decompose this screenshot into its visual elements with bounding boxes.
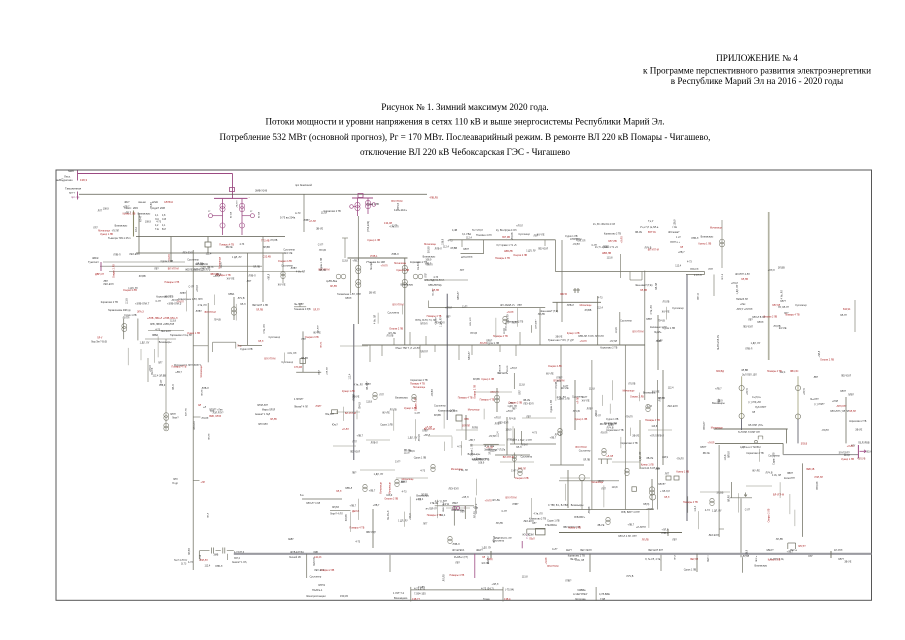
- bus 481: [559, 480, 619, 482]
- svg-text:4-73 87,6: 4-73 87,6: [234, 551, 245, 554]
- wire: [366, 439, 390, 441]
- svg-text:ВЗУ-УВ: ВЗУ-УВ: [186, 408, 188, 416]
- svg-text:Транс-кая 7 Об, (7 у)Р: Транс-кая 7 Об, (7 у)Р: [548, 339, 574, 342]
- svg-text:Сурок 4 ЛВ: Сурок 4 ЛВ: [240, 348, 253, 351]
- svg-text:112,4: 112,4: [152, 375, 158, 378]
- wire: [560, 477, 590, 479]
- svg-text:С-Л?: С-Л?: [552, 548, 558, 551]
- svg-text:3,1 УВА: 3,1 УВА: [462, 233, 471, 236]
- svg-text:108,9: 108,9: [674, 219, 677, 226]
- svg-text:Коркатово 2 ТВ: Коркатово 2 ТВ: [606, 429, 624, 432]
- svg-text:112,4: 112,4: [694, 505, 697, 511]
- svg-text:С-Л?: С-Л?: [582, 396, 588, 399]
- svg-text:Потоки мощности и уровни напря: Потоки мощности и уровни напряжения в се…: [265, 117, 664, 127]
- svg-text:С-Л?: С-Л?: [563, 385, 569, 388]
- svg-text:ЛЛ,ЛЛ: ЛЛ,ЛЛ: [729, 495, 731, 502]
- svg-text:Вохемцево: Вохемцево: [394, 596, 408, 600]
- svg-text:С32,4В: С32,4В: [263, 256, 272, 259]
- svg-text:ЗВ4,3С: ЗВ4,3С: [790, 370, 799, 373]
- svg-text:113,8: 113,8: [519, 383, 525, 386]
- wire vert 283: [282, 253, 284, 283]
- svg-text:4-73: 4-73: [239, 243, 244, 246]
- wire bus2 Тарханово: [145, 338, 176, 340]
- svg-text:1 ДЛ, ЛУ: 1 ДЛ, ЛУ: [712, 510, 722, 513]
- svg-text:112,4: 112,4: [349, 373, 352, 379]
- svg-text:ЛЛУ,Л?: ЛЛУ,Л?: [798, 546, 806, 548]
- svg-text:ЛЛЛ,ЛЛ: ЛЛЛ,ЛЛ: [200, 560, 209, 562]
- svg-text:108,9: 108,9: [145, 220, 152, 223]
- wire vert 561: [560, 345, 562, 465]
- svg-text:ЛЛВ-Л: ЛЛВ-Л: [657, 434, 665, 437]
- svg-text:113,8: 113,8: [342, 259, 348, 262]
- wire vert 722: [721, 220, 723, 268]
- svg-text:ЛЛ-Л?: ЛЛ-Л?: [840, 314, 848, 317]
- svg-text:ЛВ?: ЛВ?: [455, 561, 460, 564]
- svg-text:ЛЕУ-т: ЛЕУ-т: [707, 555, 710, 562]
- transformer Заречная: [165, 339, 167, 430]
- svg-text:Озерки 2 ЛВ: Озерки 2 ЛВ: [389, 327, 403, 330]
- svg-text:-ЛУ,ЛЛ: -ЛУ,ЛЛ: [122, 316, 130, 319]
- svg-text:ЛЛ,ЛВ: ЛЛ,ЛВ: [773, 325, 780, 328]
- svg-text:ЛВ?: ЛВ?: [103, 280, 108, 283]
- svg-text:ЗВУ-ЛД?: ЗВУ-ЛД?: [366, 531, 376, 534]
- svg-text:ЛЛЛ: ЛЛЛ: [173, 479, 178, 481]
- transformer: [710, 498, 714, 502]
- svg-text:ЛЛ,ЛВ: ЛЛ,ЛВ: [741, 278, 748, 281]
- svg-text:-ЛУ,ЛЛ: -ЛУ,ЛЛ: [676, 458, 684, 461]
- svg-text:АВВ,ЛВ: АВВ,ЛВ: [504, 250, 513, 253]
- svg-text:ЖУ-ЛЕ: ЖУ-ЛЕ: [382, 411, 390, 414]
- box Озерки: [332, 410, 338, 414]
- wire riser345 b: [409, 332, 411, 345]
- svg-text:844,94: 844,94: [843, 308, 851, 311]
- svg-text:ЛьУЛ-ЕУЛ-УЕ: ЛьУЛ-ЕУЛ-УЕ: [717, 334, 720, 350]
- box 536: [536, 528, 546, 535]
- svg-text:С-Л?: С-Л?: [462, 306, 468, 309]
- svg-text:( ( ) ЛЛЛ?: ( ( ) ЛЛЛ?: [814, 403, 825, 406]
- svg-text:Помары 4 ТВ: Помары 4 ТВ: [493, 335, 508, 338]
- svg-text:Косм-ЛЛ?: Косм-ЛЛ?: [784, 477, 795, 480]
- svg-text:+ЛВ,7: +ЛВ,7: [715, 387, 722, 390]
- svg-text:ЛЛ: ЛЛ: [752, 411, 756, 414]
- tap 480: [193, 480, 199, 482]
- svg-text:Сурок 1 ЛВ: Сурок 1 ЛВ: [547, 520, 560, 523]
- svg-text:Суслонгер: Суслонгер: [387, 312, 399, 315]
- svg-text:Визимьяры: Визимьяры: [452, 509, 465, 512]
- svg-text:Суслонгер: Суслонгер: [795, 304, 807, 307]
- svg-text:ЗМВ: ЗМВ: [214, 554, 219, 556]
- svg-text:+ЛЛЛ: +ЛЛЛ: [832, 400, 839, 403]
- wire vert 263: [262, 237, 264, 303]
- transformer: [503, 316, 507, 320]
- svg-text:+ЛЛ,Л: +ЛЛ,Л: [267, 273, 270, 280]
- bus Оршанка: [449, 239, 555, 241]
- svg-text:-ЛУ,ЛЛ: -ЛУ,ЛЛ: [431, 389, 434, 397]
- svg-text:ЛЛВ-Л: ЛЛВ-Л: [194, 269, 202, 272]
- svg-text:ЛЛВ-ЛЛ Л ЛЛ. ЛЛЛ ЛЛ: ЛЛВ-ЛЛ Л ЛЛ. ЛЛЛ ЛЛ: [578, 335, 604, 338]
- wire vert 373: [372, 509, 374, 548]
- svg-text:4 Ув, ЛЛ: 4 Ув, ЛЛ: [575, 559, 585, 562]
- svg-text:Визимьяры: Визимьяры: [468, 453, 481, 456]
- svg-text:ЖУ-УЕЗЛ-Уч: ЖУ-УЕЗЛ-Уч: [500, 304, 516, 307]
- bus 444: [510, 443, 556, 445]
- wire vert 592: [591, 360, 593, 510]
- svg-text:Кужер 1 ЛВ: Кужер 1 ЛВ: [342, 390, 355, 393]
- wire vert 645: [644, 271, 646, 400]
- svg-text:Зв-2(кй: Зв-2(кй: [370, 261, 373, 270]
- svg-text:ЗВ-УЕ: ЗВ-УЕ: [316, 228, 323, 231]
- wire: [451, 437, 453, 448]
- svg-text:С-Л?: С-Л?: [745, 508, 751, 511]
- svg-text:Уч,е Г,Л ,Е,ЛЛ-а: Уч,е Г,Л ,Е,ЛЛ-а: [640, 226, 659, 229]
- svg-text:Тькелра 709.1 25.1: Тькелра 709.1 25.1: [108, 236, 131, 240]
- svg-text:Сурок 1 ЛВ: Сурок 1 ЛВ: [414, 457, 427, 460]
- svg-text:Лид-Элт? В (В: Лид-Элт? В (В: [91, 341, 107, 344]
- svg-text:Л, Ге-УЛ, 4 Ув,: Л, Ге-УЛ, 4 Ув,: [645, 558, 661, 561]
- svg-text:ЧЭВВа: ЧЭВВа: [577, 588, 586, 592]
- svg-text:1 ДЛ, ЛУ: 1 ДЛ, ЛУ: [639, 451, 642, 461]
- wire Орш vert: [483, 240, 485, 254]
- svg-text:АТ-ВЛ: АТ-ВЛ: [258, 211, 261, 218]
- svg-text:113,8: 113,8: [125, 298, 128, 304]
- svg-text:ЛЛВ?: ЛЛВ?: [196, 310, 203, 313]
- svg-text:С-Л?: С-Л?: [395, 461, 401, 464]
- transformer: [602, 448, 606, 452]
- svg-text:ЛЕУ-ЕУЛ: ЛЕУ-ЕУЛ: [538, 247, 549, 250]
- svg-text:Мочалище: Мочалище: [623, 390, 636, 393]
- svg-text:ЛЛВ: ЛЛВ: [464, 418, 469, 421]
- svg-text:ЗЛУЗЛЛ?: ЗЛУЗЛЛ?: [536, 319, 538, 329]
- svg-text:ЗЛ,ВВ: ЗЛ,ВВ: [489, 447, 492, 454]
- svg-text:+ЛЛ,Л: +ЛЛ,Л: [494, 417, 501, 420]
- svg-text:Суслонгер: Суслонгер: [518, 233, 530, 236]
- svg-text:110+110+: 110+110+: [394, 208, 407, 212]
- bus 507 left: [330, 510, 351, 512]
- wire: [437, 500, 439, 518]
- tap 417: [193, 416, 200, 418]
- svg-text:+Л-ЛЛ: +Л-ЛЛ: [707, 441, 714, 444]
- svg-text:ЛУЧ,В: ЛУЧ,В: [397, 202, 400, 209]
- wire bus Тарханово: [148, 330, 184, 332]
- svg-text:113,8: 113,8: [615, 327, 618, 333]
- svg-text:ЖЕУ?: ЖЕУ?: [476, 549, 483, 552]
- svg-text:ВЛ-УГЛ-М: ВЛ-УГЛ-М: [264, 358, 275, 361]
- svg-text:Коркатово 2 ТВ: Коркатово 2 ТВ: [101, 301, 119, 304]
- svg-text:к Программе перспективного раз: к Программе перспективного развития элек…: [643, 66, 871, 76]
- svg-text:ЛЛВ?: ЛЛВ?: [365, 383, 372, 386]
- breaker box: [230, 188, 235, 192]
- svg-text:ПААТа-1: ПААТа-1: [312, 588, 323, 592]
- wire drop2: [138, 213, 140, 253]
- svg-text:Визимьяры: Визимьяры: [604, 422, 617, 425]
- svg-text:+ЛЛ,Л: +ЛЛ,Л: [818, 350, 821, 357]
- wire elbow 741: [730, 497, 752, 499]
- transformer: [646, 404, 650, 408]
- svg-text:Госамлена 1 ЛЛ, ЛЛЛ: Госамлена 1 ЛЛ, ЛЛЛ: [337, 293, 361, 296]
- svg-text:УОВ,1: УОВ,1: [370, 254, 378, 258]
- svg-text:Кужер 1 ЛВ: Кужер 1 ЛВ: [567, 332, 580, 335]
- wire: [340, 345, 368, 347]
- svg-text:4-73: 4-73: [448, 239, 453, 242]
- svg-text:ВЛ-УГЛ-М: ВЛ-УГЛ-М: [576, 446, 587, 449]
- svg-text:+ ЛЛ-Л,Л: + ЛЛ-Л,Л: [660, 490, 670, 493]
- schematic border frame: [56, 170, 872, 600]
- wire ВЛ 220 кВ top: [78, 173, 233, 175]
- wire pink drop 522: [521, 541, 523, 548]
- svg-text:+ЛЛ,Л: +ЛЛ,Л: [445, 307, 452, 310]
- bus Чигашево 110: [714, 428, 788, 430]
- svg-text:+ЛВ,7: +ЛВ,7: [468, 439, 475, 442]
- svg-text:Озерки 2 ЛВ: Озерки 2 ЛВ: [112, 264, 115, 278]
- bus 110 south thick: [234, 553, 872, 555]
- wire: [456, 429, 478, 431]
- wire drop 390: [389, 554, 391, 572]
- transformer 652: [651, 479, 653, 500]
- svg-text:Озерки 2 ЛВ: Озерки 2 ЛВ: [508, 402, 522, 405]
- svg-text:ЗЛ-Л: ЗЛ-Л: [319, 370, 321, 375]
- wire: [738, 493, 740, 512]
- svg-text:ЛЛЛ-ЛЛ? ( ЛЛ ЛЛ: ЛЛЛ-ЛЛ? ( ЛЛ ЛЛ: [830, 410, 849, 413]
- wire vert 138: [137, 319, 139, 341]
- svg-text:Сурок 1 ЛВ: Сурок 1 ЛВ: [773, 452, 776, 465]
- svg-text:ЛЕУ-УЕУЛ: ЛЕУ-УЕУЛ: [580, 549, 592, 552]
- bus 499: [302, 498, 342, 500]
- svg-text:+ЛУ,Л: +ЛУ,Л: [746, 388, 749, 395]
- svg-text:112,4: 112,4: [220, 262, 223, 268]
- svg-text:АТ-2: АТ-2: [135, 226, 138, 232]
- svg-text:С-Л?: С-Л?: [415, 412, 421, 415]
- svg-text:Сурок 1 ЛВ: Сурок 1 ЛВ: [320, 258, 323, 271]
- wire: [779, 482, 781, 498]
- svg-text:Ль+ЛЛ?: Ль+ЛЛ?: [810, 398, 819, 401]
- svg-text:ЛЛ,ЛВ: ЛЛ,ЛВ: [662, 300, 669, 303]
- svg-text:ЖУ-ЛЕ: ЖУ-ЛЕ: [537, 233, 545, 236]
- wire: [759, 449, 761, 462]
- svg-text:ЛЛ,ЛВ: ЛЛ,ЛВ: [390, 408, 397, 411]
- svg-text:4,78-ВЗЕ: 4,78-ВЗЕ: [599, 592, 610, 596]
- transformer Т1 Помары: [357, 198, 359, 216]
- wire vert 658: [657, 315, 659, 370]
- wire: [402, 305, 404, 315]
- svg-text:ЛУЧ,В: ЛУЧ,В: [626, 575, 633, 578]
- svg-text:+ЛВ,7: +ЛВ,7: [175, 371, 182, 374]
- svg-text:Помары 4 ТВ: Помары 4 ТВ: [165, 281, 180, 284]
- svg-text:ЛЛУ,ЛЛ: ЛЛУ,ЛЛ: [772, 304, 781, 307]
- svg-text:ЖУ? 4 ЛЕУ, 1 УЛ?: ЖУ? 4 ЛЕУ, 1 УЛ?: [512, 439, 532, 442]
- svg-text:Кужер 1 ЛВ: Кужер 1 ЛВ: [100, 233, 113, 236]
- svg-text:+Л: +Л: [203, 406, 206, 409]
- svg-text:ЛуЛ-ЛЛЛ?: ЛуЛ-ЛЛЛ?: [755, 406, 767, 409]
- svg-text:Суслонгер: Суслонгер: [521, 456, 533, 459]
- svg-text:С ТВУ, В 1, В-УВЗ: С ТВУ, В 1, В-УВЗ: [548, 504, 568, 507]
- wire: [620, 437, 622, 448]
- wire: [446, 507, 470, 509]
- svg-text:ПРИЛОЖЕНИЕ № 4: ПРИЛОЖЕНИЕ № 4: [716, 53, 798, 63]
- wire vert 625: [624, 345, 626, 510]
- svg-text:4-73: 4-73: [705, 509, 710, 512]
- svg-text:+ЛВ,7: +ЛВ,7: [123, 205, 130, 208]
- svg-text:+ЛЛ-ЛЛ: +ЛЛ-ЛЛ: [327, 367, 329, 375]
- wire drop345 g: [499, 345, 501, 352]
- box 459: [456, 415, 462, 421]
- wire x148: [147, 358, 149, 382]
- svg-text:Лере? 4 ЛЛ: Лере? 4 ЛЛ: [330, 513, 343, 516]
- wire: [648, 429, 672, 431]
- svg-text:ЛУЧ,В: ЛУЧ,В: [418, 434, 421, 441]
- svg-text:4 С?-Л: 4 С?-Л: [694, 274, 702, 277]
- svg-text:ДВП,37: ДВП,37: [95, 272, 105, 276]
- svg-text:Помары 4 ТВ: Помары 4 ТВ: [480, 399, 495, 402]
- wire: [343, 407, 345, 421]
- svg-text:112,4: 112,4: [417, 498, 423, 501]
- svg-text:С-В: С-В: [162, 218, 167, 221]
- wire: [475, 498, 477, 512]
- svg-text:ЗЛ(ЛЗ: ЗЛ(ЛЗ: [332, 506, 339, 509]
- svg-text:+ЛЛ,Л: +ЛЛ,Л: [492, 583, 499, 586]
- transformer: [518, 468, 522, 472]
- wire tick 531: [531, 325, 533, 333]
- svg-text:ЛЕУ-ЕУЛ: ЛЕУ-ЕУЛ: [497, 372, 508, 375]
- wire: [495, 318, 497, 338]
- svg-text:ЛЛУЛ?: ЛЛУЛ?: [658, 483, 666, 486]
- svg-text:АТ-ВЛ: АТ-ВЛ: [230, 211, 233, 218]
- svg-text:Мочалище: Мочалище: [413, 386, 426, 389]
- wire drop 228: [227, 554, 229, 560]
- svg-text:Коркатово 2 ТВ: Коркатово 2 ТВ: [438, 409, 456, 412]
- svg-text:Коркатово 2 ТВ: Коркатово 2 ТВ: [621, 442, 639, 445]
- breaker 303: [300, 359, 305, 364]
- wire: [428, 435, 452, 437]
- transformer АТ-2: [241, 199, 243, 235]
- svg-text:ЛЕУ-ЕУЛ: ЛЕУ-ЕУЛ: [129, 253, 140, 256]
- wire: [157, 336, 159, 357]
- wire riser345 a: [393, 338, 395, 345]
- svg-text:Кужер 1 ЛВ: Кужер 1 ЛВ: [699, 242, 712, 245]
- svg-text:ЛЛ(Л): ЛЛ(Л): [643, 503, 650, 506]
- wire: [444, 442, 446, 451]
- svg-text:ЗУВ, ВЗУ? 4 ЛЛ?: ЗУВ, ВЗУ? 4 ЛЛ?: [621, 511, 640, 514]
- svg-text:ЛЗЛ ЛЛУ?: ЛЗЛ ЛЛУ?: [213, 413, 224, 415]
- svg-text:С-Л?: С-Л?: [318, 244, 324, 247]
- svg-text:Темников 4 Р(В: Темников 4 Р(В: [294, 309, 311, 311]
- svg-text:-ЛЛУ,У +ЛУ/ЛЛ: -ЛЛУ,У +ЛУ/ЛЛ: [736, 308, 753, 311]
- svg-text:7,054-155: 7,054-155: [414, 592, 426, 596]
- svg-text:ЛЕУ-ЕУЛ 1 ЛВ: ЛЕУ-ЕУЛ 1 ЛВ: [252, 304, 268, 307]
- svg-text:Сурок 1 ЛВ: Сурок 1 ЛВ: [663, 327, 676, 330]
- svg-text:Мочалище: Мочалище: [379, 481, 382, 494]
- wire ТЭЦ-1 bus3: [109, 271, 303, 273]
- wire: [461, 441, 463, 455]
- svg-text:Потребление 532 МВт (основной: Потребление 532 МВт (основной прогноз), …: [220, 132, 711, 142]
- svg-text:Мочалище: Мочалище: [451, 468, 464, 471]
- capacitor bank: [199, 550, 209, 552]
- svg-text:Тке? 4 ЛЛ 'в': Тке? 4 ЛЛ 'в': [174, 560, 188, 562]
- transformer АТ-1: [222, 199, 224, 235]
- svg-text:ЛЛ,ЛВ: ЛЛ,ЛВ: [642, 539, 649, 542]
- bus tick 294: [294, 306, 306, 308]
- svg-text:ЖУ-ЛЕ: ЖУ-ЛЕ: [652, 390, 660, 393]
- svg-text:ЛЛ,ЛВ: ЛЛ,ЛВ: [386, 334, 393, 337]
- svg-text:+ЛЛ,Л: +ЛЛ,Л: [213, 275, 220, 278]
- wire horiz 308: [428, 307, 545, 309]
- svg-text:112,4: 112,4: [439, 514, 445, 517]
- svg-text:ЛЗсЛ: ЛЗсЛ: [529, 539, 535, 541]
- svg-text:ЛЛВ?: ЛЛВ?: [587, 407, 594, 410]
- svg-text:4 Ув, ЛЛ: 4 Ув, ЛЛ: [197, 304, 207, 307]
- svg-text:113,8: 113,8: [522, 576, 528, 579]
- wire drop345 e: [458, 345, 460, 360]
- wire: [609, 404, 611, 414]
- svg-text:113,8: 113,8: [503, 328, 506, 334]
- wire vert 640 pale: [639, 420, 641, 469]
- svg-text:ЛЛЛЛ?: ЛЛЛЛ?: [420, 351, 429, 354]
- svg-text:Кужер 1 ЛВ: Кужер 1 ЛВ: [187, 332, 200, 335]
- svg-text:АТ-4Т: АТ-4Т: [140, 215, 143, 222]
- svg-text:Кужер 1 ЛВ: Кужер 1 ЛВ: [768, 559, 781, 562]
- svg-text:ВЛ-УГЛ-М: ВЛ-УГЛ-М: [547, 565, 558, 568]
- svg-text:397,0В: 397,0В: [502, 236, 510, 239]
- svg-text:А-ЧЕУУЛЕУ: А-ЧЕУУЛЕУ: [573, 592, 588, 596]
- wire vert 514b: [514, 428, 516, 444]
- svg-text:+ЛВ,7: +ЛВ,7: [356, 435, 363, 438]
- svg-text:+ЛЛ-Л: +ЛЛ-Л: [731, 282, 738, 285]
- svg-text:1 ДЛ, ЛУ: 1 ДЛ, ЛУ: [751, 342, 761, 345]
- svg-text:Озерки 2 ЛВ: Озерки 2 ЛВ: [768, 508, 771, 522]
- svg-text:Тужссист: Тужссист: [88, 260, 100, 264]
- svg-text:Кужер 1 ЛВ: Кужер 1 ЛВ: [575, 418, 588, 421]
- wire: [393, 409, 395, 430]
- svg-text:4-73: 4-73: [433, 276, 438, 279]
- svg-text:Тbesides 4 ЛЛ: Тbesides 4 ЛЛ: [476, 234, 492, 237]
- wire vert 697 low: [696, 554, 698, 572]
- svg-text:ЗВ-УЕ: ЗВ-УЕ: [597, 524, 604, 527]
- svg-text:ВЗ,А: ВЗ,А: [867, 451, 873, 454]
- svg-text:ЛЛЛ?: ЛЛЛ?: [463, 248, 470, 251]
- svg-text:С-Л?: С-Л?: [591, 244, 597, 247]
- svg-text:ЖУ-ЛЕ: ЖУ-ЛЕ: [313, 331, 321, 334]
- svg-text:зрт-т: зрт-т: [69, 191, 76, 195]
- svg-text:4-73: 4-73: [156, 220, 161, 223]
- svg-text:ЛУГ-Л: ЛУГ-Л: [722, 273, 724, 280]
- svg-text:138,77: 138,77: [412, 597, 420, 601]
- wire vert 620: [619, 312, 621, 345]
- svg-text:ЛЛВ?: ЛЛВ?: [565, 580, 572, 583]
- svg-text:112,4: 112,4: [466, 237, 472, 240]
- svg-text:Кужер 1 ЛВ: Кужер 1 ЛВ: [641, 464, 654, 467]
- svg-text:Чкнн-ама? (Т,Е): Чкнн-ама? (Т,Е): [635, 284, 653, 287]
- svg-text:ЗВВА: ЗВВА: [152, 334, 159, 337]
- svg-text:ЛЛВ?: ЛЛВ?: [603, 245, 610, 248]
- svg-text:Суслонгер: Суслонгер: [281, 361, 293, 364]
- transformer Т2 Помары: [367, 198, 369, 214]
- wire ВЛ 110 top: [79, 193, 427, 195]
- wire: [414, 419, 416, 441]
- transformer 722: [720, 239, 725, 244]
- svg-text:ЛЛ7: ЛЛ7: [423, 523, 428, 526]
- wire: [638, 393, 640, 402]
- svg-text:ЛЛВ-Л: ЛЛВ-Л: [392, 253, 400, 256]
- svg-text:Юкс?: Юкс?: [332, 425, 338, 427]
- svg-text:С+(Л,4+: С+(Л,4+: [752, 396, 761, 399]
- wire vert 786: [785, 429, 787, 443]
- svg-text:ЗЕ-УЕ-Л: ЗЕ-УЕ-Л: [387, 510, 390, 520]
- svg-text:Кужер 1 ЛВ: Кужер 1 ЛВ: [568, 527, 581, 530]
- svg-text:+ЛВ,7: +ЛВ,7: [350, 504, 357, 507]
- svg-text:ЛЛ: ЛЛ: [482, 556, 486, 559]
- svg-text:113,8: 113,8: [170, 320, 176, 323]
- svg-text:4-73: 4-73: [188, 561, 193, 564]
- svg-text:ЗУВ-ВЗУ+: ЗУВ-ВЗУ+: [574, 516, 586, 519]
